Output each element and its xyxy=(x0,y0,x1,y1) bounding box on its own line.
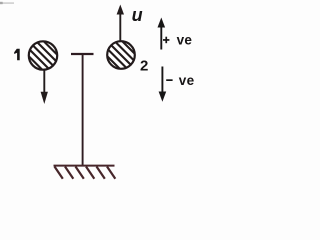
ground xyxy=(54,166,116,179)
label - ve xyxy=(166,73,194,88)
ball 2 (hatched circle) xyxy=(99,18,143,100)
svg-text:2: 2 xyxy=(140,58,148,75)
svg-text:u: u xyxy=(132,5,143,25)
down arrow below ball 1 xyxy=(41,70,48,104)
scan smudge top-left xyxy=(2,2,14,4)
svg-text:ve: ve xyxy=(177,32,193,47)
legend down arrow (-ve) xyxy=(159,67,167,102)
up arrow above ball 2 (velocity u) xyxy=(117,5,124,42)
label + ve xyxy=(163,32,192,47)
support pole (T-stand) xyxy=(71,54,94,166)
label 1 xyxy=(14,49,20,61)
ball 1 (hatched circle) xyxy=(21,19,65,101)
legend up arrow (+ve) xyxy=(158,18,166,50)
svg-text:ve: ve xyxy=(179,73,195,88)
